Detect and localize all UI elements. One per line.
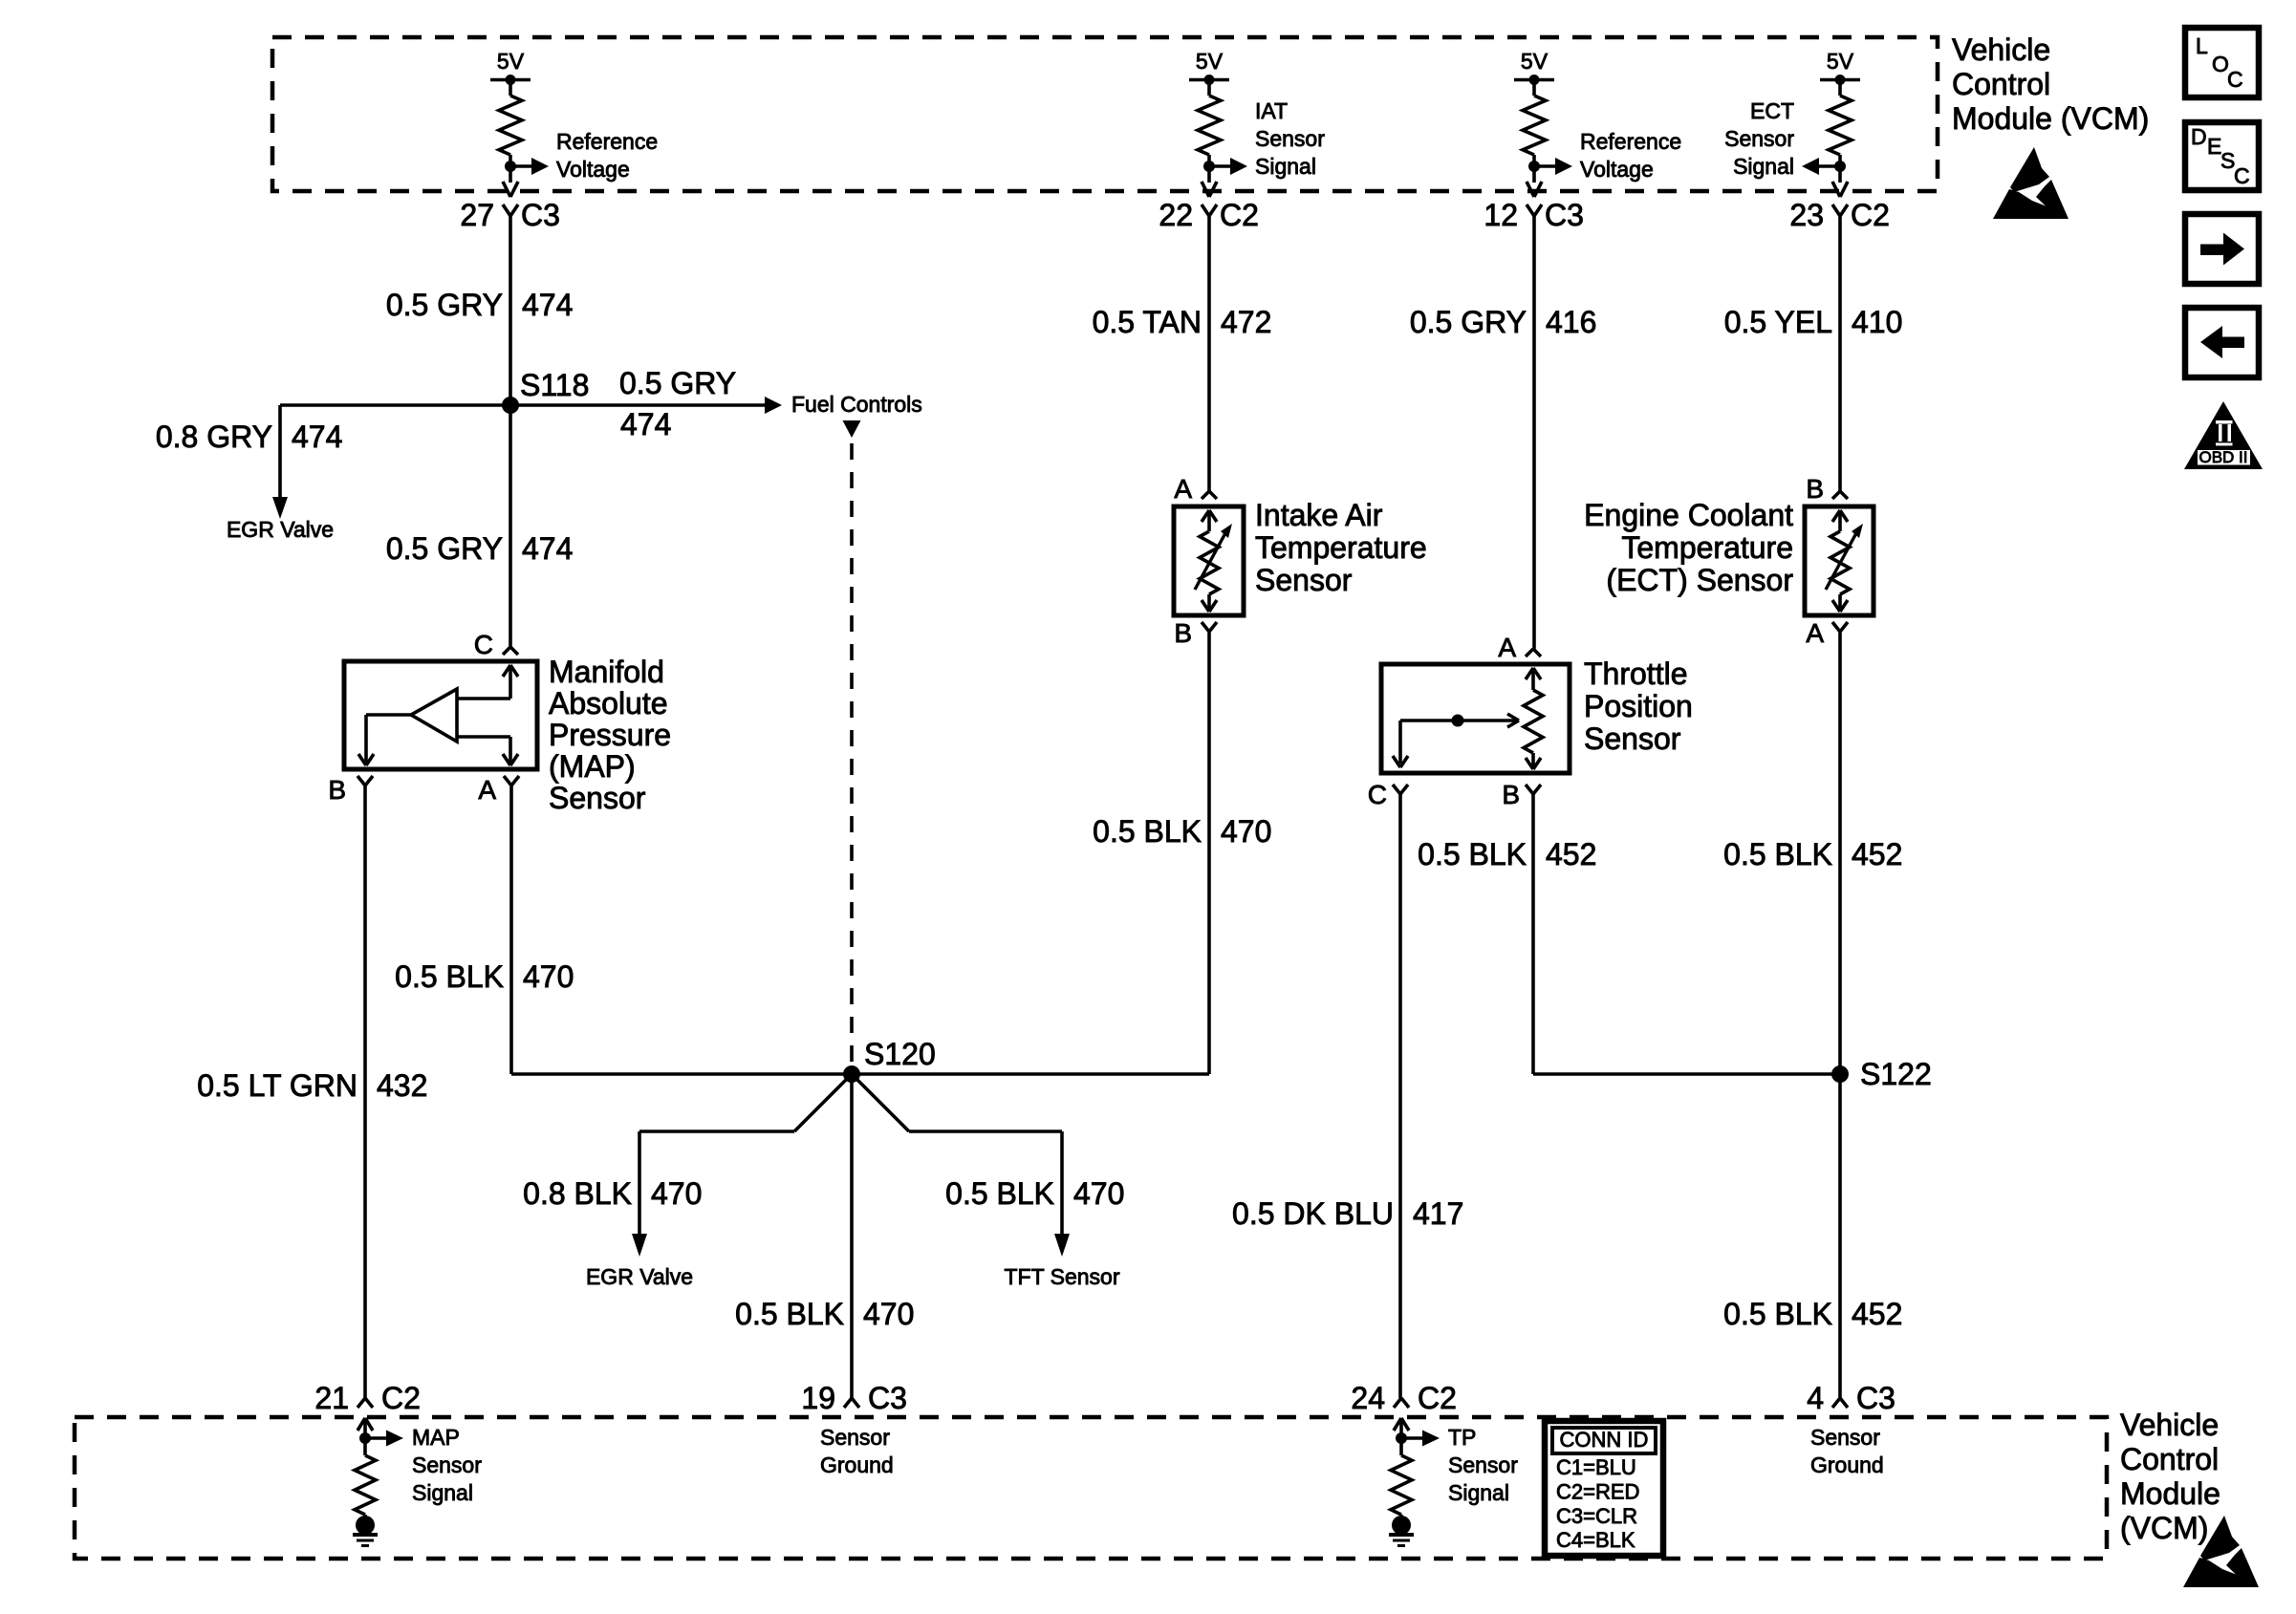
svg-text:CONN ID: CONN ID [1560, 1428, 1649, 1452]
svg-text:Voltage: Voltage [1580, 157, 1654, 182]
svg-text:Vehicle: Vehicle [2120, 1408, 2219, 1442]
svg-text:S120: S120 [864, 1037, 936, 1071]
svg-text:A: A [1174, 474, 1192, 504]
svg-text:ECT: ECT [1750, 98, 1794, 123]
svg-text:Reference: Reference [556, 129, 658, 154]
svg-text:Vehicle: Vehicle [1952, 32, 2050, 67]
svg-text:452: 452 [1546, 837, 1596, 872]
svg-text:A: A [478, 775, 496, 805]
svg-text:470: 470 [523, 959, 574, 994]
svg-text:TFT Sensor: TFT Sensor [1005, 1264, 1120, 1289]
svg-text:Engine Coolant: Engine Coolant [1584, 498, 1793, 532]
svg-text:0.5 BLK: 0.5 BLK [1723, 837, 1832, 872]
svg-text:470: 470 [863, 1297, 914, 1331]
svg-text:Absolute: Absolute [549, 686, 668, 721]
svg-text:5V: 5V [497, 49, 525, 74]
svg-text:0.5 YEL: 0.5 YEL [1724, 305, 1832, 339]
svg-text:470: 470 [1221, 814, 1271, 849]
svg-text:Sensor: Sensor [1255, 126, 1325, 151]
svg-text:452: 452 [1852, 837, 1902, 872]
svg-text:(VCM): (VCM) [2120, 1511, 2208, 1545]
svg-text:Signal: Signal [1255, 154, 1316, 179]
svg-text:417: 417 [1413, 1196, 1463, 1231]
svg-text:0.5 LT GRN: 0.5 LT GRN [197, 1068, 357, 1103]
svg-text:C3=CLR: C3=CLR [1556, 1504, 1637, 1528]
svg-text:0.5 GRY: 0.5 GRY [1410, 305, 1527, 339]
svg-text:C: C [2227, 67, 2243, 92]
svg-text:EGR Valve: EGR Valve [227, 517, 334, 542]
svg-text:C: C [1368, 780, 1387, 809]
svg-text:Ground: Ground [1810, 1453, 1884, 1477]
svg-text:Fuel Controls: Fuel Controls [791, 392, 922, 417]
svg-text:Sensor: Sensor [1724, 126, 1794, 151]
svg-text:Signal: Signal [1448, 1480, 1509, 1505]
svg-text:Sensor: Sensor [412, 1453, 482, 1477]
svg-text:C: C [474, 630, 493, 659]
svg-text:Signal: Signal [412, 1480, 473, 1505]
svg-text:0.5 BLK: 0.5 BLK [735, 1297, 844, 1331]
svg-text:C3: C3 [1545, 198, 1584, 232]
svg-text:Control: Control [1952, 67, 2050, 101]
svg-text:5V: 5V [1827, 49, 1854, 74]
svg-text:Ground: Ground [820, 1453, 894, 1477]
svg-text:Module (VCM): Module (VCM) [1952, 101, 2149, 136]
svg-text:Sensor: Sensor [1584, 721, 1681, 756]
svg-text:C3: C3 [1856, 1381, 1895, 1415]
svg-text:OBD II: OBD II [2199, 448, 2247, 466]
svg-text:Temperature: Temperature [1621, 530, 1793, 565]
svg-text:C2: C2 [1418, 1381, 1457, 1415]
svg-text:C: C [2234, 163, 2250, 188]
svg-text:0.5 GRY: 0.5 GRY [619, 366, 736, 400]
svg-text:5V: 5V [1196, 49, 1224, 74]
svg-text:Reference: Reference [1580, 129, 1681, 154]
svg-text:D: D [2191, 124, 2207, 149]
svg-text:19: 19 [801, 1381, 835, 1415]
svg-text:21: 21 [314, 1381, 349, 1415]
svg-text:Signal: Signal [1733, 154, 1794, 179]
svg-text:S122: S122 [1860, 1057, 1932, 1091]
svg-text:TP: TP [1448, 1425, 1476, 1450]
svg-text:Sensor: Sensor [1255, 563, 1353, 597]
svg-text:Temperature: Temperature [1255, 530, 1427, 565]
svg-text:B: B [1502, 780, 1520, 809]
svg-text:B: B [1806, 474, 1824, 504]
svg-text:B: B [1174, 618, 1192, 648]
svg-text:Sensor: Sensor [1448, 1453, 1518, 1477]
svg-text:22: 22 [1159, 198, 1193, 232]
svg-text:IAT: IAT [1255, 98, 1288, 123]
svg-text:Pressure: Pressure [549, 718, 671, 752]
svg-text:Sensor: Sensor [820, 1425, 890, 1450]
svg-text:0.5 TAN: 0.5 TAN [1093, 305, 1202, 339]
svg-text:5V: 5V [1521, 49, 1549, 74]
svg-text:Intake Air: Intake Air [1255, 498, 1383, 532]
svg-text:Module: Module [2120, 1476, 2220, 1511]
svg-text:Manifold: Manifold [549, 655, 664, 689]
svg-text:C1=BLU: C1=BLU [1556, 1455, 1636, 1479]
svg-text:0.5 GRY: 0.5 GRY [386, 531, 503, 566]
svg-text:4: 4 [1807, 1381, 1824, 1415]
svg-text:470: 470 [651, 1176, 702, 1211]
svg-text:0.5 BLK: 0.5 BLK [945, 1176, 1054, 1211]
svg-text:S118: S118 [520, 368, 589, 402]
svg-text:C4=BLK: C4=BLK [1556, 1528, 1635, 1552]
svg-text:C2: C2 [1851, 198, 1890, 232]
svg-text:C2: C2 [381, 1381, 421, 1415]
svg-text:EGR Valve: EGR Valve [586, 1264, 693, 1289]
svg-text:Control: Control [2120, 1442, 2219, 1476]
svg-text:(ECT) Sensor: (ECT) Sensor [1606, 563, 1793, 597]
svg-text:0.5 BLK: 0.5 BLK [1723, 1297, 1832, 1331]
svg-text:C3: C3 [521, 198, 560, 232]
svg-text:474: 474 [522, 288, 573, 322]
svg-text:L: L [2196, 33, 2208, 58]
svg-text:(MAP): (MAP) [549, 749, 636, 784]
svg-text:24: 24 [1351, 1381, 1385, 1415]
svg-text:416: 416 [1546, 305, 1596, 339]
svg-text:Throttle: Throttle [1584, 656, 1687, 691]
svg-text:Position: Position [1584, 689, 1693, 723]
svg-text:0.5 DK BLU: 0.5 DK BLU [1232, 1196, 1394, 1231]
svg-text:C2=RED: C2=RED [1556, 1479, 1639, 1503]
svg-text:A: A [1806, 618, 1824, 648]
svg-text:Sensor: Sensor [1810, 1425, 1880, 1450]
svg-text:470: 470 [1073, 1176, 1124, 1211]
svg-text:0.5 GRY: 0.5 GRY [386, 288, 503, 322]
svg-text:0.8 GRY: 0.8 GRY [156, 420, 272, 454]
svg-text:474: 474 [292, 420, 342, 454]
svg-text:410: 410 [1852, 305, 1902, 339]
svg-text:C3: C3 [868, 1381, 907, 1415]
svg-text:27: 27 [460, 198, 494, 232]
svg-text:0.5 BLK: 0.5 BLK [1093, 814, 1202, 849]
svg-text:MAP: MAP [412, 1425, 460, 1450]
svg-text:A: A [1498, 633, 1516, 662]
svg-text:474: 474 [620, 407, 671, 441]
svg-text:472: 472 [1221, 305, 1271, 339]
svg-text:0.5 BLK: 0.5 BLK [1418, 837, 1527, 872]
svg-text:23: 23 [1789, 198, 1824, 232]
svg-text:432: 432 [377, 1068, 427, 1103]
svg-text:Sensor: Sensor [549, 781, 646, 815]
svg-text:C2: C2 [1220, 198, 1259, 232]
svg-text:0.8 BLK: 0.8 BLK [523, 1176, 632, 1211]
svg-text:474: 474 [522, 531, 573, 566]
svg-text:12: 12 [1484, 198, 1518, 232]
svg-text:0.5 BLK: 0.5 BLK [395, 959, 504, 994]
svg-text:452: 452 [1852, 1297, 1902, 1331]
svg-text:Voltage: Voltage [556, 157, 630, 182]
svg-text:B: B [328, 775, 346, 805]
